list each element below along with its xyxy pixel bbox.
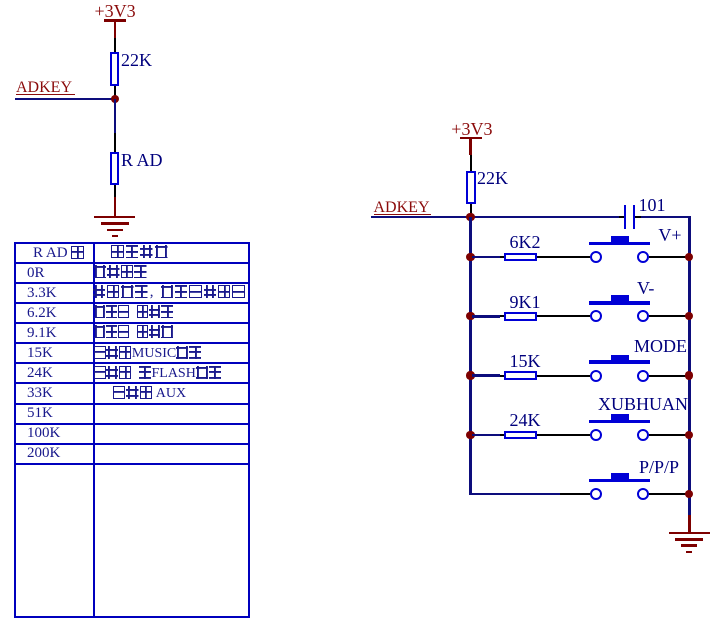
wire (rail to R 9K1) <box>472 315 501 318</box>
wire (pin to switch S5) <box>560 493 590 495</box>
wire (pin, R2 to ADKEY node) <box>470 204 472 216</box>
junction node ADKEY (left) <box>111 95 119 103</box>
value table column 1 text <box>33 246 85 261</box>
wire (pin to R 24K) <box>500 434 505 436</box>
pushbutton switch S2 V- <box>611 295 629 302</box>
value label R AD <box>121 151 163 169</box>
pushbutton switch S3 MODE <box>611 355 629 362</box>
value label 15K <box>510 352 541 370</box>
wire ADKEY horizontal (left) <box>15 98 116 101</box>
wire (left rail corner to switch S5) <box>469 493 560 496</box>
resistor 15K <box>504 371 537 380</box>
value label 101 <box>639 196 666 214</box>
pushbutton switch S5 P/P/P <box>611 473 629 480</box>
resistor R1 22K (left) <box>110 52 119 86</box>
wire (switch S1 V+ to right rail) <box>649 256 687 258</box>
value label 9K1 <box>510 293 541 311</box>
value label 6K2 <box>510 233 541 251</box>
junction node row 5 (right rail) <box>685 490 693 498</box>
power +3V3 (right) <box>451 120 492 138</box>
value table outer border <box>14 242 251 618</box>
value table column divider <box>93 242 95 618</box>
resistor 24K <box>504 431 537 440</box>
wire (switch S4 XUBHUAN to right rail) <box>649 434 687 436</box>
junction node row 4 (right rail) <box>685 431 693 439</box>
wire (rail to R 15K) <box>472 374 501 377</box>
value label 22K (right) <box>477 169 508 187</box>
wire (pin, +3V3 to R2) <box>470 155 472 171</box>
switch label MODE <box>634 337 687 355</box>
value label 24K <box>510 411 541 429</box>
junction node row 4 (left rail) <box>466 431 474 439</box>
wire (pin, R1 to node ADKEY) <box>114 86 116 97</box>
left rail wire <box>469 217 472 494</box>
wire (switch S3 MODE to right rail) <box>649 375 687 377</box>
wire (pin to R 15K) <box>500 375 505 377</box>
wire (pin, +3V3 to R1) <box>114 38 116 53</box>
switch label V- <box>637 279 654 297</box>
resistor R2 22K (right) <box>466 171 475 204</box>
net label ADKEY (left) <box>16 80 72 96</box>
wire (rail to R 6K2) <box>472 256 501 259</box>
wire (cap to right rail) <box>641 216 691 219</box>
value table column 2 text <box>111 245 170 260</box>
switch label V+ <box>658 226 681 244</box>
value label 22K <box>121 51 152 69</box>
switch label P/P/P <box>639 458 679 476</box>
wire (R 6K2 to switch) <box>537 256 591 258</box>
value table row lines <box>14 262 251 264</box>
pushbutton switch S4 XUBHUAN <box>611 414 629 421</box>
ground (right) <box>669 532 710 535</box>
wire (switch S2 V- to right rail) <box>649 315 687 317</box>
wire (switch S5 P/P/P to right rail) <box>649 493 687 495</box>
junction node row 2 (left rail) <box>466 312 474 320</box>
capacitor C1 101 <box>619 216 626 218</box>
junction node row 3 (left rail) <box>466 371 474 379</box>
switch label XUBHUAN <box>598 395 688 413</box>
junction node row 2 (right rail) <box>685 312 693 320</box>
wire (R 15K to switch) <box>537 375 591 377</box>
wire (pin to R 6K2) <box>500 256 505 258</box>
wire (pin to R 9K1) <box>500 315 505 317</box>
wire ADKEY horizontal (right) <box>371 216 619 219</box>
junction node row 3 (right rail) <box>685 371 693 379</box>
junction node row 1 (right rail) <box>685 253 693 261</box>
junction node row 1 (left rail) <box>466 253 474 261</box>
wire (R 24K to switch) <box>537 434 591 436</box>
wire (pin, to R AD) <box>114 133 116 152</box>
wire (R 9K1 to switch) <box>537 315 591 317</box>
wire (pin, R AD to ground) <box>114 185 116 197</box>
pushbutton switch S1 V+ <box>611 236 629 243</box>
right rail wire <box>688 216 691 516</box>
resistor 6K2 <box>504 253 537 262</box>
wire (rail to R 24K) <box>472 434 501 437</box>
resistor 9K1 <box>504 312 537 321</box>
wire (node to R AD) <box>114 99 117 133</box>
power +3V3 (left) <box>95 2 136 20</box>
resistor R AD <box>110 152 119 185</box>
ground (left) <box>114 197 117 217</box>
wire (rail ground pin) <box>688 515 690 533</box>
net label ADKEY (right) <box>374 200 430 216</box>
junction node ADKEY (right) <box>466 213 474 221</box>
